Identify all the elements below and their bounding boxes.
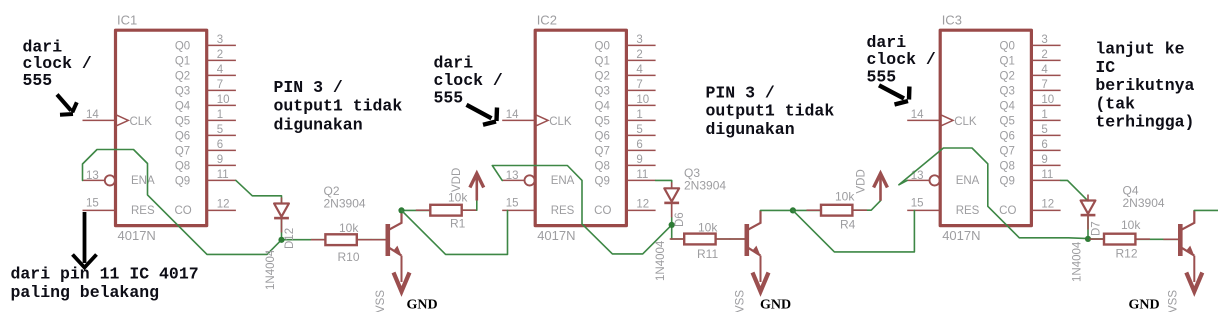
svg-text:IC: IC [1095, 58, 1115, 77]
svg-text:6: 6 [217, 139, 223, 151]
wire base net: D7 junction to R12 [1088, 238, 1104, 240]
IC IC1 4017N body [116, 30, 207, 225]
annotation text: note: dari pin 11 IC 4017 / paling belakang [11, 265, 199, 303]
svg-text:(tak: (tak [1095, 94, 1135, 113]
svg-text:Q2: Q2 [175, 71, 190, 83]
power symbol VSS (down arrow) [753, 256, 769, 292]
annotation text: note: PIN 3 / output1 tidak digunakan (1) [274, 78, 403, 134]
IC1 pin 2 (Q1) [175, 49, 236, 68]
VDD net label (rotated) [451, 168, 463, 192]
svg-text:dari pin 11 IC 4017: dari pin 11 IC 4017 [11, 265, 199, 284]
arrow black to IC2 CLK [467, 105, 498, 125]
IC3 pin 13 (ENA) with inversion bubble [907, 170, 979, 187]
D12 value label 1N4004 (rotated) [265, 249, 277, 290]
svg-text:12: 12 [1041, 199, 1054, 211]
svg-text:Q4: Q4 [175, 101, 191, 113]
transistor Q2 (2N3904) [371, 239, 386, 241]
IC1 pin 13 (ENA) with inversion bubble [83, 170, 155, 187]
R11 name label [697, 247, 718, 261]
svg-text:15: 15 [911, 198, 924, 210]
ground label GND (Q4 emitter) [1129, 298, 1160, 312]
wire IC2 Q9 (pin11) to diode D6 anode [656, 180, 672, 188]
svg-text:10k: 10k [835, 190, 855, 204]
svg-text:10: 10 [1041, 94, 1054, 106]
svg-text:2N3904: 2N3904 [324, 197, 366, 211]
svg-text:10k: 10k [339, 221, 359, 235]
R12 name label [1116, 247, 1138, 261]
svg-text:dari: dari [867, 33, 907, 52]
IC3 pin 11 (Q9) [1000, 169, 1061, 188]
Q4 value label 2N3904 [1123, 196, 1165, 210]
Q2 value label 2N3904 [324, 197, 366, 211]
wire IC1 ENA (pin13) routing to D12 junction [83, 150, 282, 255]
svg-text:ENA: ENA [956, 175, 980, 187]
annotation text: note: PIN 3 / output1 tidak digunakan (2) [706, 84, 835, 139]
svg-text:RES: RES [131, 205, 155, 217]
wire Q4 collector to next IC (right edge) [1194, 209, 1218, 211]
Q4 name label [1123, 184, 1139, 198]
R11 value label 10k [698, 221, 718, 235]
svg-text:Q2: Q2 [595, 71, 610, 83]
svg-text:1: 1 [636, 109, 642, 121]
svg-text:R4: R4 [840, 218, 856, 232]
IC3 pin 9 (Q8) [1000, 154, 1061, 173]
IC2 pin 4 (Q2) [595, 64, 656, 83]
IC2 pin 2 (Q1) [595, 49, 656, 68]
wire IC1 Q9 (pin11) to diode D12 anode [236, 180, 282, 203]
svg-text:1: 1 [217, 109, 223, 121]
Q3 value label 2N3904 [684, 179, 726, 193]
IC1 pin 5 (Q6) [175, 124, 236, 143]
svg-text:IC2: IC2 [537, 13, 557, 28]
svg-text:Q9: Q9 [595, 176, 610, 188]
wire Q3 collector to IC3 RES (pin15) [793, 210, 915, 252]
svg-text:9: 9 [1041, 154, 1047, 166]
IC1 pin 3 (Q0) [175, 34, 236, 53]
D6 value label 1N4004 (rotated) [655, 240, 667, 281]
svg-text:4017N: 4017N [537, 228, 575, 243]
svg-text:Q0: Q0 [1000, 41, 1015, 53]
svg-text:Q9: Q9 [1000, 176, 1015, 188]
wire diode D12 cathode to junction [281, 218, 283, 240]
wire diode D6 cathode to junction [671, 203, 673, 239]
IC2 pin 6 (Q7) [595, 139, 656, 158]
svg-text:D12: D12 [284, 228, 296, 249]
svg-text:3: 3 [636, 34, 642, 46]
wire Q2 collector to IC2 RES (pin15) [402, 210, 508, 254]
svg-text:Q6: Q6 [175, 131, 190, 143]
svg-text:4: 4 [1041, 64, 1048, 76]
R1 value label 10k [448, 191, 468, 205]
svg-text:4017N: 4017N [118, 228, 156, 243]
svg-text:CO: CO [174, 205, 191, 217]
IC2 pin 10 (Q4) [595, 94, 656, 113]
svg-text:555: 555 [867, 68, 897, 87]
IC1 pin 6 (Q7) [175, 139, 236, 158]
svg-text:IC1: IC1 [117, 13, 137, 28]
svg-text:15: 15 [506, 198, 519, 210]
R4 name label [840, 218, 856, 232]
IC1 value label 4017N [118, 228, 156, 243]
svg-text:RES: RES [551, 205, 575, 217]
svg-text:14: 14 [911, 109, 924, 121]
svg-text:Q3: Q3 [1000, 86, 1015, 98]
svg-text:Q0: Q0 [595, 41, 610, 53]
wire IC3 ENA (pin13) routing to D7 junction [899, 148, 1088, 239]
svg-text:VSS: VSS [375, 290, 387, 312]
VSS net label (rotated) [1168, 290, 1180, 312]
wire diode D7 cathode to junction [1087, 215, 1089, 239]
svg-text:PIN 3 /: PIN 3 / [274, 78, 343, 97]
IC2 pin 9 (Q8) [595, 154, 656, 173]
svg-text:1N4004: 1N4004 [1072, 241, 1084, 282]
power symbol VSS (down arrow) [394, 256, 410, 292]
svg-text:VDD: VDD [855, 169, 867, 193]
svg-text:3: 3 [1041, 34, 1047, 46]
junction D7 junction [1085, 236, 1091, 242]
annotation text: note: dari clock / 555 (IC3) [867, 33, 936, 87]
svg-text:output1 tidak: output1 tidak [274, 97, 403, 116]
IC2 pin 13 (ENA) with inversion bubble [502, 170, 574, 187]
IC2 pin 3 (Q0) [595, 34, 656, 53]
IC3 pin 5 (Q6) [1000, 124, 1061, 143]
IC2 pin 15 (RES) [502, 198, 574, 218]
junction D12 junction [278, 237, 284, 243]
svg-text:3: 3 [217, 34, 223, 46]
wire IC3 Q9 (pin11) to diode D7 anode [1061, 180, 1088, 201]
svg-text:13: 13 [86, 170, 99, 182]
IC3 pin 12 (CO) [999, 199, 1060, 217]
wire Q2 collector net to R1 [402, 209, 431, 211]
IC3 pin 15 (RES) [907, 198, 979, 218]
ground label GND (Q3 emitter) [760, 298, 791, 312]
R10 value label 10k [339, 221, 359, 235]
svg-text:9: 9 [636, 154, 642, 166]
svg-text:1N4004: 1N4004 [265, 249, 277, 290]
Q2 name label [324, 184, 340, 198]
svg-text:clock /: clock / [867, 50, 936, 69]
D12 name label (rotated) [284, 228, 296, 249]
svg-text:Q5: Q5 [175, 116, 190, 128]
svg-text:9: 9 [217, 154, 223, 166]
R10 name label [338, 250, 360, 264]
IC IC3 4017N body [940, 30, 1031, 225]
transistor Q4 (2N3904) [1163, 238, 1178, 240]
svg-text:terhingga): terhingga) [1095, 113, 1194, 132]
IC IC2 4017N body [535, 30, 626, 225]
svg-text:15: 15 [86, 198, 99, 210]
svg-text:digunakan: digunakan [706, 120, 795, 139]
svg-text:Q8: Q8 [1000, 161, 1015, 173]
R4 value label 10k [835, 190, 855, 204]
transistor Q3 (2N3904) [730, 238, 745, 240]
wire Q3 collector net to R4 [761, 209, 822, 211]
svg-text:2: 2 [1041, 49, 1047, 61]
IC3 reference label [942, 13, 962, 28]
svg-text:CO: CO [999, 205, 1016, 217]
annotation text: note: lanjut ke IC berikutnya (tak terhingga) [1095, 40, 1194, 132]
svg-text:2N3904: 2N3904 [1123, 196, 1165, 210]
IC3 pin 6 (Q7) [1000, 139, 1061, 158]
svg-text:R10: R10 [338, 250, 360, 264]
wire IC2 ENA (pin13) routing to D6 junction [492, 166, 671, 254]
svg-text:4017N: 4017N [942, 228, 980, 243]
diode D12 (1N4004) [274, 204, 289, 219]
svg-text:CO: CO [594, 205, 611, 217]
svg-text:digunakan: digunakan [274, 115, 363, 134]
svg-text:R12: R12 [1116, 247, 1138, 261]
resistor R4 body with pin stubs [807, 205, 867, 216]
diode D7 (1N4004) leads [1087, 195, 1089, 230]
IC2 pin 11 (Q9) [595, 169, 656, 188]
IC3 pin 4 (Q2) [1000, 64, 1061, 83]
svg-text:2: 2 [217, 49, 223, 61]
svg-text:11: 11 [217, 169, 229, 181]
svg-text:VSS: VSS [1168, 290, 1180, 312]
svg-text:10k: 10k [1121, 218, 1141, 232]
svg-text:2: 2 [636, 49, 642, 61]
svg-text:ENA: ENA [131, 175, 155, 187]
svg-text:Q2: Q2 [1000, 71, 1015, 83]
svg-text:Q5: Q5 [595, 116, 610, 128]
svg-text:Q6: Q6 [595, 131, 610, 143]
wire base net: R12 to Q4 base [1135, 238, 1178, 240]
svg-text:11: 11 [636, 169, 648, 181]
Q3 name label [684, 166, 700, 180]
junction Q3 collector junction [790, 207, 796, 213]
IC2 pin 7 (Q3) [595, 79, 656, 98]
svg-text:Q3: Q3 [595, 86, 610, 98]
IC3 pin 14 (CLK) with clock triangle [907, 109, 977, 128]
junction D6 junction [669, 222, 675, 228]
wire base net: D6 junction to R11 [672, 238, 685, 240]
svg-text:11: 11 [1041, 169, 1053, 181]
ground label GND (Q2 emitter) [407, 298, 438, 312]
svg-text:13: 13 [911, 170, 924, 182]
wire base net: D12 junction to R10 [282, 239, 326, 241]
svg-text:14: 14 [506, 109, 519, 121]
svg-text:D7: D7 [1091, 221, 1103, 236]
R12 value label 10k [1121, 218, 1141, 232]
svg-text:Q7: Q7 [175, 146, 190, 158]
IC2 pin 12 (CO) [594, 199, 655, 217]
arrow black to IC3 CLK [879, 85, 909, 104]
svg-text:Q1: Q1 [595, 56, 610, 68]
power symbol VSS (down arrow) [1186, 256, 1202, 292]
R1 name label [450, 217, 466, 231]
svg-text:1N4004: 1N4004 [655, 240, 667, 281]
svg-text:555: 555 [23, 71, 53, 90]
IC1 pin 9 (Q8) [175, 154, 236, 173]
IC1 reference label [117, 13, 137, 28]
IC2 value label 4017N [537, 228, 575, 243]
svg-text:VSS: VSS [735, 290, 747, 312]
svg-text:10k: 10k [698, 221, 718, 235]
svg-text:Q9: Q9 [175, 176, 190, 188]
IC3 pin 3 (Q0) [1000, 34, 1061, 53]
diode D6 (1N4004) [664, 188, 679, 203]
wire R1 to VDD [462, 201, 477, 211]
svg-text:12: 12 [217, 199, 230, 211]
IC3 pin 10 (Q4) [1000, 94, 1061, 113]
svg-text:dari: dari [434, 53, 474, 72]
svg-text:2N3904: 2N3904 [684, 179, 726, 193]
svg-text:5: 5 [217, 124, 223, 136]
IC3 pin 7 (Q3) [1000, 79, 1061, 98]
power symbol VDD (up arrow) [470, 174, 484, 201]
svg-text:GND: GND [1129, 298, 1160, 312]
svg-text:RES: RES [956, 205, 980, 217]
wire R4 to VDD [853, 201, 881, 211]
svg-text:clock /: clock / [434, 71, 503, 90]
svg-text:Q3: Q3 [175, 86, 190, 98]
IC3 pin 1 (Q5) [1000, 109, 1061, 128]
IC1 pin 15 (RES) [83, 198, 155, 218]
IC1 pin 14 (CLK) with clock triangle [83, 109, 153, 128]
svg-text:555: 555 [434, 88, 464, 107]
svg-text:Q4: Q4 [1000, 101, 1016, 113]
svg-text:7: 7 [1041, 79, 1047, 91]
D6 name label (rotated) [674, 212, 686, 227]
svg-text:12: 12 [636, 199, 649, 211]
junction Q2 collector junction [398, 207, 404, 213]
svg-text:PIN 3 /: PIN 3 / [706, 84, 775, 103]
VSS net label (rotated) [735, 290, 747, 312]
svg-text:14: 14 [86, 109, 99, 121]
IC2 pin 14 (CLK) with clock triangle [502, 109, 572, 128]
svg-text:CLK: CLK [954, 116, 977, 128]
svg-text:GND: GND [760, 298, 791, 312]
svg-text:D6: D6 [674, 212, 686, 227]
svg-text:1: 1 [1041, 109, 1047, 121]
svg-text:output1 tidak: output1 tidak [706, 102, 835, 121]
arrow black to IC1 CLK [57, 95, 77, 115]
IC3 pin 2 (Q1) [1000, 49, 1061, 68]
svg-text:6: 6 [636, 139, 642, 151]
IC1 pin 4 (Q2) [175, 64, 236, 83]
resistor R11 body with pin stubs [670, 234, 730, 245]
svg-text:Q6: Q6 [1000, 131, 1015, 143]
svg-text:Q7: Q7 [1000, 146, 1015, 158]
svg-text:R11: R11 [697, 247, 718, 261]
svg-text:Q0: Q0 [175, 41, 190, 53]
svg-text:7: 7 [636, 79, 642, 91]
svg-text:IC3: IC3 [942, 13, 962, 28]
svg-text:R1: R1 [450, 217, 466, 231]
D7 value label 1N4004 (rotated) [1072, 241, 1084, 282]
svg-text:Q8: Q8 [595, 161, 610, 173]
svg-text:4: 4 [217, 64, 224, 76]
IC3 value label 4017N [942, 228, 980, 243]
svg-text:CLK: CLK [130, 116, 153, 128]
svg-text:Q7: Q7 [595, 146, 610, 158]
svg-text:5: 5 [1041, 124, 1047, 136]
wire base net: R10 to Q2 base [357, 239, 386, 241]
wire base net: R11 to Q3 base [716, 238, 745, 240]
resistor R12 body with pin stubs [1090, 234, 1150, 245]
annotation text: note: dari clock / 555 (IC1) [23, 37, 92, 90]
annotation text: note: dari clock / 555 (IC2) [434, 53, 503, 107]
resistor R1 body with pin stubs [416, 205, 476, 216]
VDD net label (rotated) [855, 169, 867, 193]
IC2 pin 1 (Q5) [595, 109, 656, 128]
wire black: from pin 15 IC1 down to note [73, 212, 97, 268]
svg-text:13: 13 [506, 170, 519, 182]
svg-text:4: 4 [636, 64, 643, 76]
svg-text:Q5: Q5 [1000, 116, 1015, 128]
power symbol VDD (up arrow) [874, 174, 888, 201]
VSS net label (rotated) [375, 290, 387, 312]
svg-text:ENA: ENA [551, 175, 575, 187]
IC1 pin 7 (Q3) [175, 79, 236, 98]
svg-text:GND: GND [407, 298, 438, 312]
diode D7 (1N4004) [1081, 201, 1096, 216]
svg-text:7: 7 [217, 79, 223, 91]
svg-text:5: 5 [636, 124, 642, 136]
D7 name label (rotated) [1091, 221, 1103, 236]
IC1 pin 12 (CO) [174, 199, 235, 217]
IC2 reference label [537, 13, 557, 28]
svg-text:10: 10 [636, 94, 649, 106]
svg-text:Q8: Q8 [175, 161, 190, 173]
svg-text:Q1: Q1 [1000, 56, 1015, 68]
svg-text:Q4: Q4 [595, 101, 611, 113]
IC1 pin 1 (Q5) [175, 109, 236, 128]
svg-text:berikutnya: berikutnya [1095, 76, 1194, 95]
svg-text:Q1: Q1 [175, 56, 190, 68]
svg-text:paling belakang: paling belakang [11, 283, 160, 302]
diode D12 (1N4004) leads [281, 198, 283, 233]
svg-text:CLK: CLK [549, 116, 572, 128]
diode D6 (1N4004) leads [671, 182, 673, 217]
svg-text:6: 6 [1041, 139, 1047, 151]
svg-text:VDD: VDD [451, 168, 463, 192]
IC2 pin 5 (Q6) [595, 124, 656, 143]
resistor R10 body with pin stubs [311, 234, 371, 245]
IC1 pin 11 (Q9) [175, 169, 236, 188]
svg-text:lanjut ke: lanjut ke [1095, 40, 1184, 59]
IC1 pin 10 (Q4) [175, 94, 236, 113]
svg-text:10: 10 [217, 94, 230, 106]
